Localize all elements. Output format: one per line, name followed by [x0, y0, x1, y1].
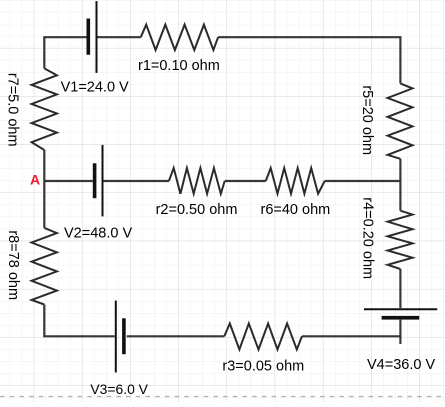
wire top-left: corner to battery V1 [44, 37, 86, 68]
wire middle: r2 to r6 [225, 180, 266, 182]
svg-text:r4=0.20 ohm: r4=0.20 ohm [360, 197, 376, 279]
svg-text:A: A [30, 172, 40, 188]
resistor r7 [32, 68, 57, 150]
wire right: r5 to middle junction to r4 [399, 159, 401, 211]
battery V3 [116, 301, 126, 373]
svg-text:r7=5.0 ohm: r7=5.0 ohm [4, 73, 20, 147]
svg-text:r6=40 ohm: r6=40 ohm [261, 202, 331, 218]
wire top-right: r1 to right rail corner, down to r5 [218, 37, 400, 83]
svg-text:r8=78 ohm: r8=78 ohm [5, 230, 21, 300]
battery V1 [87, 1, 97, 73]
wire middle: r6 to right rail junction [325, 180, 401, 182]
wire middle: node A to battery V2 [44, 180, 93, 182]
resistor r4 [388, 211, 413, 269]
dashed page boundary [0, 396, 445, 398]
svg-text:r3=0.05 ohm: r3=0.05 ohm [222, 358, 304, 374]
wire bottom: V3 to r3 [127, 335, 225, 337]
svg-text:r2=0.50 ohm: r2=0.50 ohm [156, 202, 238, 218]
wire left: r7 to node A to r8 [43, 150, 45, 228]
resistor r6 [266, 168, 325, 194]
battery V4 [364, 309, 437, 319]
wire top: V1 to r1 [98, 36, 141, 38]
resistor r1 [141, 25, 218, 50]
svg-text:r1=0.10 ohm: r1=0.10 ohm [138, 58, 220, 74]
wire middle: V2 to r2 [104, 180, 169, 182]
resistor r2 [169, 168, 225, 194]
svg-text:V1=24.0 V: V1=24.0 V [61, 79, 129, 95]
resistor r5 [388, 83, 413, 158]
svg-text:V3=6.0 V: V3=6.0 V [90, 381, 148, 397]
wire right: V4 to bottom stub [399, 320, 401, 344]
svg-text:V4=36.0 V: V4=36.0 V [367, 357, 435, 373]
wire right: r4 to battery V4 [399, 269, 401, 308]
svg-text:V2=48.0 V: V2=48.0 V [64, 226, 132, 242]
wire bottom: r3 to bottom-right junction [302, 335, 400, 337]
wire left-bottom: r8 to bottom corner to battery V3 [44, 305, 115, 337]
battery V2 [93, 145, 103, 217]
resistor r3 [224, 324, 302, 350]
svg-text:r5=20 ohm: r5=20 ohm [359, 85, 375, 155]
resistor r8 [32, 228, 57, 305]
